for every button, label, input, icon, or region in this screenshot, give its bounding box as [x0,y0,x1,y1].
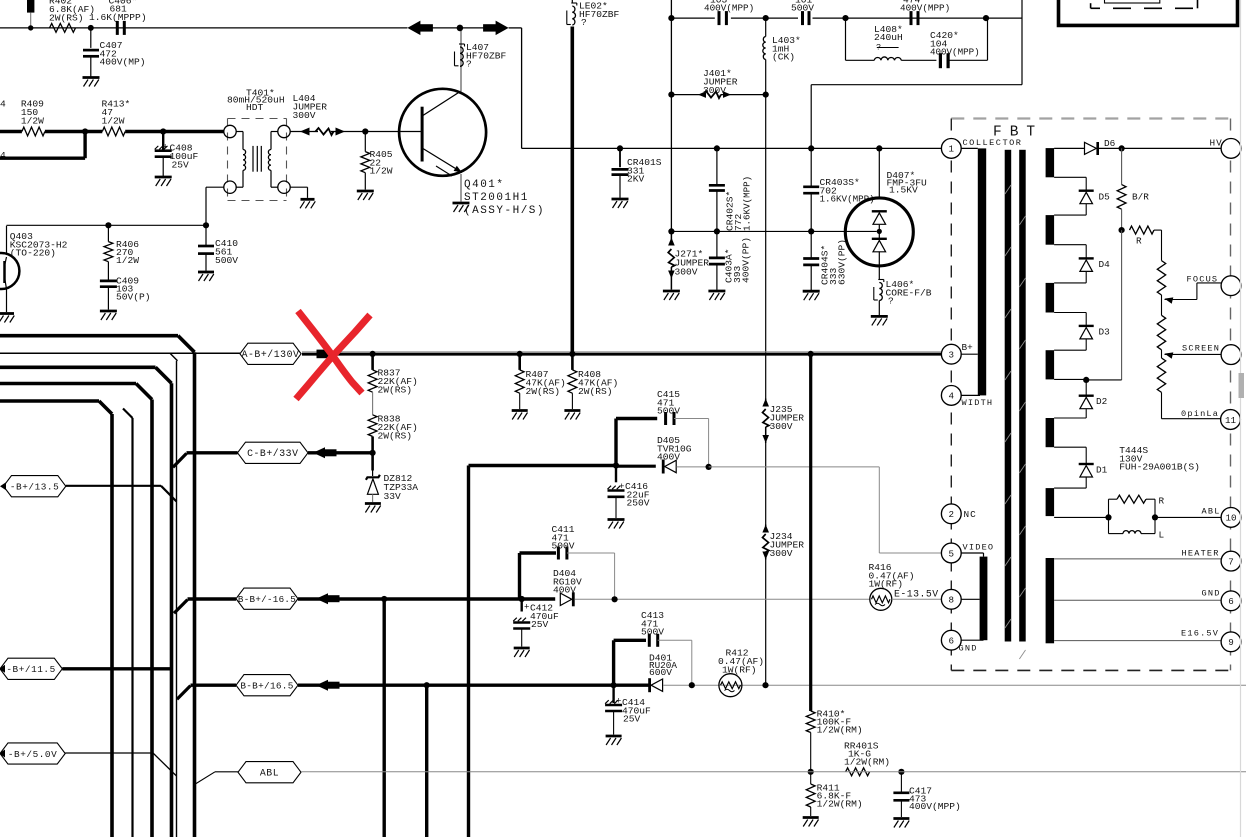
ground below C408 [155,176,172,179]
wire thin branch down x=176.5 [170,353,178,361]
jumper J401* JUMPER 300V [671,94,700,96]
transformer T401* 80mH/520uH HDT [224,87,290,200]
svg-text:400V(MP): 400V(MP) [100,57,146,68]
svg-text:400V(MPP): 400V(MPP) [930,47,980,58]
transistor Q401* ST2001H1 (ASSY-H/S) [399,89,486,176]
wire -B+/130V row to FBT pin3 [302,351,941,353]
HV output circle [1221,139,1241,159]
fusible resistor R416 0.47(AF) 1W(RF) [870,588,892,610]
wire bus D y=383.5 corner to vertical x=152 [0,382,136,386]
svg-text:2W(RS): 2W(RS) [526,386,561,397]
arrow left on top net [407,21,420,35]
wire bus C y=367.3 corner to vertical x=171.5 [0,365,156,369]
svg-text:3: 3 [949,350,955,361]
FOCUS output circle [1221,276,1241,296]
wire Q403 collector to net y=225.3 [6,226,8,254]
svg-text:FOCUS: FOCUS [1187,275,1219,285]
red X annotation over -B+/130V [298,311,362,393]
FBT secondary winding segments [1046,148,1055,177]
node junction top net x=986 [983,15,989,21]
wire C415 right to D405 node [674,418,709,420]
svg-text:E-13.5V: E-13.5V [894,589,939,600]
wire bus A y=335.7 from left edge with corner to vertical x=194.5 [0,334,178,338]
diode pack D407* FMP-3FU 1.5KV [876,145,882,151]
ground below Q403 [0,312,14,315]
pin 6 GND right [1221,591,1241,611]
net label hexagon ABL [238,762,301,783]
FOCUS wiper [1165,297,1174,303]
svg-text:300V: 300V [675,267,698,278]
wire B+/33V row [173,453,187,467]
connector box on B+/130V [317,350,332,359]
resistor R407 47K(AF) 2W(RS) [517,351,523,357]
wire BR terminal to ground [290,186,307,188]
wire Q401 emitter down to ground [460,174,462,202]
inductor L403* 1mH (CK) [763,37,766,60]
svg-text:1: 1 [949,144,955,155]
svg-text:-B+/13.5: -B+/13.5 [10,482,59,493]
svg-text:2KV: 2KV [627,174,645,185]
svg-text:HF70ZBF: HF70ZBF [466,50,507,61]
wire B+ row1 y=131.5 thick from left edge [0,130,22,133]
svg-text:630V(PP): 630V(PP) [837,239,848,285]
wire -B+/13.5 row [66,485,161,487]
capacitor C406* 681 1.6K(MPPP) [116,21,119,35]
diode D1 [1079,463,1094,465]
ground below J271 [663,290,680,293]
pin 2 NC [941,504,961,524]
svg-text:-B+/5.0V: -B+/5.0V [8,749,57,760]
node junctions R/L [1105,514,1111,520]
ground below C407 [83,76,100,79]
node junction on top net above Q401 [457,25,464,32]
svg-text:4: 4 [949,391,955,402]
svg-text:D6: D6 [1104,138,1116,149]
svg-text:400V(MPP): 400V(MPP) [909,801,961,812]
wire C411 right down to D404 row [567,552,615,554]
SCREEN output circle [1221,345,1241,365]
jumper L404 JUMPER 300V [290,131,313,133]
wire net y=231.4 J271 to D407 [671,230,876,232]
node junction C410 top [203,222,209,228]
svg-text:+: + [524,603,529,613]
svg-text:VIDEO: VIDEO [963,543,995,553]
pin 1 COLLECTOR [941,139,961,159]
svg-text:R: R [1136,236,1142,247]
wire corner path from top right down to collector line x=811 [1021,0,1023,85]
node junction top net x=765.7 [763,15,769,21]
svg-text:500V: 500V [791,3,814,14]
svg-text:HDT: HDT [246,102,264,113]
svg-text:1/2W(RM): 1/2W(RM) [844,757,890,768]
diode D6 [1054,147,1084,149]
wire corner down to collector line [521,28,523,148]
net label hexagon A-B+/130V [240,343,301,364]
net label hexagon -B+/5.0V [0,743,65,764]
wire thick net y=465.5 corner x=468.5 down [469,464,617,467]
inductor-capacitor branch L408* 240uH + C420* 104 400V(MPP) [845,18,847,60]
wire C413 thick L [612,640,615,685]
capacitor C417 473 400V(MPP) [900,772,902,793]
capacitor C414 470uF 25V polarized [612,685,614,703]
svg-text:250V: 250V [627,498,650,509]
capacitor C410 561 500V [205,225,207,245]
capacitor CR404S* 333 630V(PP) [808,228,814,234]
pin 9 E16.5V [1221,632,1241,652]
jumper J271* JUMPER 300V [670,231,672,243]
capacitor CR402S* 772 1.6KV(MPP) [714,145,720,151]
inductor L407 HF70ZBF ferrite bead [460,47,463,66]
svg-text:D1: D1 [1096,465,1108,476]
wire GND right [1054,599,1221,601]
wire L403 vertical down to J401 [765,18,767,36]
R L parallel network [1109,495,1165,540]
wire to ABL pin 10 [1155,516,1221,518]
wire D401 row thin [663,684,1246,686]
wire thick vertical from LE02 down to B+/130V row [570,27,574,354]
svg-text:B+: B+ [962,342,974,353]
svg-text:C-B+/33V: C-B+/33V [247,448,298,459]
arrow on B+/33V row [313,447,325,458]
node junction vertical x=426.7 start [424,682,430,688]
capacitor 474 400V(MPP) top net [910,11,913,25]
wire Q403 emitter to ground [6,289,8,312]
capacitor CR401S 331 2KV [617,145,623,151]
scrollbar track right edge [1240,0,1242,837]
ground below C409 [100,310,117,313]
svg-text:0pinLa: 0pinLa [1181,409,1219,419]
svg-text:300V: 300V [703,85,726,96]
fusible resistor R412 0.47(AF) 1W(RF) [719,674,742,697]
svg-text:4: 4 [0,99,6,110]
svg-text:1/2W(RM): 1/2W(RM) [817,799,863,810]
resistor R408 47K(AF) 2W(RS) [569,351,575,357]
resistor R405 22 1/2W [364,132,366,152]
svg-text:5: 5 [949,548,955,559]
off-page stub (black bar) top-left [27,0,34,13]
svg-text:R: R [1159,496,1165,507]
svg-text:4: 4 [0,150,6,161]
wire seg4-D2 with node [1054,378,1086,380]
wire ABL row thin grey to right edge [301,771,1246,773]
node junction vertical x=384 start [381,596,387,602]
inductor LE02* HF70ZBF ferrite bead on thick vertical [571,0,573,3]
scrollbar thumb [1239,373,1245,398]
pin 8 [941,589,961,609]
node junction R410/R411/RR401S [808,769,814,775]
wire seg6 to ABL R/L network [1054,516,1108,518]
svg-text:400V: 400V [553,585,576,596]
node junction J401 left [668,92,674,98]
pin 11 [1221,410,1241,430]
svg-text:400V: 400V [657,452,680,463]
node junction R409/R413 [82,128,88,134]
svg-text:Q401*: Q401* [464,179,505,191]
svg-text:25V: 25V [531,619,549,630]
svg-text:2W(RS): 2W(RS) [49,12,84,23]
svg-text:ABL: ABL [1202,507,1221,517]
wire bus vertical x=132.5 [123,409,133,419]
svg-text:?: ? [888,296,894,307]
svg-text:1.5KV: 1.5KV [889,185,918,196]
svg-text:ABL: ABL [260,768,279,779]
node junction at x=31 on top net [28,25,33,30]
svg-text:7: 7 [1228,556,1234,567]
svg-text:A-B+/130V: A-B+/130V [242,349,300,360]
node junction B/R bottom R [1121,209,1123,230]
pin 7 HEATER [1221,551,1241,571]
svg-text:NC: NC [964,509,977,520]
node junction D6/HV [1119,145,1125,151]
node center of D407 [877,229,882,234]
wire -B+/5.0V row thin [65,752,153,754]
resistor RR401S 1K-G 1/2W(RM) on ABL row [846,768,870,776]
svg-text:?: ? [466,59,472,70]
capacitor C416 22uF 250V polarized [615,466,617,483]
capacitor C408 100uF 25V polarized [162,132,164,150]
wire D404 row thin to R416 [575,598,870,600]
wire R837-R838 [372,392,374,415]
net label hexagon C-B+/33V [238,442,309,463]
pin 4 WIDTH [941,386,961,406]
svg-text:B-B+/16.5: B-B+/16.5 [240,681,293,692]
wire B/R vertical down to seg4 node [1121,230,1123,380]
wire seg2-D4 [1054,244,1086,246]
svg-text:-B+/11.5: -B+/11.5 [6,664,55,675]
svg-text:600V: 600V [649,667,672,678]
wire seg5-D1 [1054,446,1086,448]
resistor R402 6.8K(AF) 2W(RS) [50,24,76,33]
svg-text:COLLECTOR: COLLECTOR [963,138,1023,148]
pin 5 VIDEO [941,543,961,563]
wire pin5 to video bar [961,552,983,554]
net label hexagon -B+/13.5 [4,476,66,497]
svg-text:B/R: B/R [1132,192,1149,203]
svg-text:240uH: 240uH [874,32,903,43]
focus/screen potentiometer chain [1161,230,1163,261]
svg-text:(ASSY-H/S): (ASSY-H/S) [464,205,545,217]
svg-text:2W(RS): 2W(RS) [378,431,413,442]
svg-text:6: 6 [949,636,955,647]
wire thick vertical B+ to R410 [809,354,812,711]
FBT dashed box [951,119,1230,671]
svg-text:2W(RS): 2W(RS) [378,385,413,396]
wire seg1-D5 [1054,176,1086,178]
wire E16.5V [1054,640,1221,642]
wire VIDEO net right and down to pin5 [709,466,880,468]
svg-text:11: 11 [1225,415,1237,426]
diode D5 [1079,189,1094,191]
svg-text:D2: D2 [1096,396,1107,407]
svg-text:+: + [619,482,624,492]
svg-text:25V: 25V [623,714,641,725]
node junction top net x=845.5 [842,15,848,21]
capacitor CR403S* 702 1.6KV(MPP) [808,145,814,151]
diode D4 [1079,257,1094,259]
wire ABL lead-in [195,772,216,785]
node junction top net x=671 [668,15,674,21]
wire B+/-16.5 row thick [174,600,188,614]
svg-text:500V: 500V [215,255,238,266]
pin 3 B+ [941,344,961,364]
node junction at C408 [160,128,166,134]
wire vertical x=671.4 from top edge down to J271 [670,0,672,231]
svg-text:1.6K(MPPP): 1.6K(MPPP) [89,12,147,23]
resistor R413* 47 1/2W [102,127,125,136]
svg-text:FUH-29A001B(S): FUH-29A001B(S) [1119,462,1200,473]
node junction J234 bottom [762,682,768,688]
node junction at x=90.8 [88,25,94,31]
wire net y=225.3 [7,224,207,226]
resistor R to focus chain [1130,226,1155,234]
capacitor C413 471 500V [648,634,651,647]
capacitor C415 471 500V [664,412,667,425]
wire Q401 collector up to arrow node [460,29,462,92]
wire row2 y=158.2 thick from left edge with corner up at x=85 [0,156,85,159]
resistor R410* 100K-F 1/2W(RM) [806,711,815,733]
wire top net y=28 from left edge to corner at x=521.6 [0,27,407,29]
svg-text:+: + [616,697,621,707]
FBT primary winding bar [978,148,986,395]
svg-text:HV: HV [1210,138,1223,149]
wire x=765.7 vertical down through rows to D401 row [765,95,767,399]
svg-text:33V: 33V [384,491,402,502]
node junction main at C415/D405/C416 [613,462,619,468]
capacitor C412 470uF 25V polarized [521,599,523,612]
jumper J234 JUMPER 300V [762,525,769,533]
svg-text:1/2W(RM): 1/2W(RM) [817,725,863,736]
svg-text:D4: D4 [1099,259,1111,270]
FBT core bars [1005,150,1012,642]
ground below Q401 emitter [453,202,470,205]
jumper J235 JUMPER 300V [762,399,769,407]
svg-text:(CK): (CK) [772,52,795,63]
svg-text:L: L [1159,530,1165,541]
ground below L406 [871,315,888,318]
wire seg3-D3 [1054,312,1086,314]
wire C413 right down to D401 row [658,639,692,641]
svg-text:10: 10 [1225,513,1236,524]
svg-text:9: 9 [1228,637,1234,648]
net label hexagon B-B+/16.5 [236,675,298,696]
svg-text:50V(P): 50V(P) [116,292,151,303]
wire C411 thick L [518,553,521,599]
svg-text:500V: 500V [657,406,680,417]
svg-text:1.6KV(MPP): 1.6KV(MPP) [742,176,753,231]
node junction thick vertical to R410 [808,351,814,357]
diode D405 TVR10G 400V [616,465,656,468]
node junction J271 top [668,228,674,234]
node junction C417 top [898,769,904,775]
capacitor C409 103 50V(P) [100,280,117,283]
svg-text:(TO-220): (TO-220) [10,248,56,259]
svg-text:500V: 500V [641,627,664,638]
svg-text:300V: 300V [293,110,316,121]
net label hexagon B-B+/-16.5 [236,588,298,609]
node junction D405 output [706,464,712,470]
resistor R837 22K(AF) 2W(RS) [370,351,376,357]
ground below R405 [357,190,374,193]
pin 6 GND [941,630,961,650]
wire thick up to C415 [614,419,617,466]
svg-text:300V: 300V [770,421,793,432]
capacitor C411 471 500V [557,547,560,560]
wire -B+/130V thin line from left edge [0,352,240,354]
wire HEATER [1054,558,1221,560]
svg-text:6: 6 [1228,596,1234,607]
diode D2 [1079,395,1094,397]
svg-text:GND: GND [959,643,978,653]
node junction D404/C411 node [612,596,618,602]
svg-text:500V: 500V [552,541,575,552]
arrow on B+/16.5 row [316,680,328,691]
top-right block partial box [1059,0,1238,25]
svg-text:8: 8 [949,595,955,606]
svg-text:1/2W: 1/2W [21,116,44,127]
pin 10 ABL [1221,508,1241,528]
zener diode DZ812 TZP33A 33V [371,453,374,471]
svg-text:2: 2 [949,509,955,520]
svg-text:HEATER: HEATER [1182,549,1220,559]
diode D3 [1079,325,1094,327]
ground at T401 secondary [301,198,315,201]
diode D401 RU20A 600V [648,678,651,692]
svg-text:SCREEN: SCREEN [1182,344,1220,354]
svg-text:E16.5V: E16.5V [1181,629,1219,639]
node junction DZ812 top [370,450,376,456]
arrow right on top net [496,21,509,35]
capacitor C407 472 400V(MP) [90,28,92,48]
wire to pin 11 [1162,418,1222,420]
svg-text:2W(RS): 2W(RS) [578,386,613,397]
svg-text:WIDTH: WIDTH [962,398,994,408]
diode D404 RG10V 400V [560,593,572,605]
wire -B+/11.5 row [62,667,171,670]
capacitor C403A* 393 400V(PP) [714,228,720,234]
svg-text:400V(MPP): 400V(MPP) [704,3,754,14]
svg-text:GND: GND [1202,589,1221,599]
wire pin6 to video bar [961,639,983,641]
wire pin1 to primary bar [961,147,978,149]
resistor R838 22K(AF) 2W(RS) [368,415,377,437]
arrow on B+/-16.5 row [316,593,328,604]
net label hexagon -B+/11.5 [0,658,62,679]
capacitor 101 500V [801,11,804,25]
svg-text:D5: D5 [1099,192,1111,203]
svg-text:1W(RF): 1W(RF) [722,665,757,676]
svg-text:+: + [163,143,168,153]
svg-text:300V: 300V [770,548,793,559]
node junction J401 right [763,92,769,98]
transistor Q403 KSC2073-H2 (TO-220) [0,253,19,289]
resistor R411 6.8K-F 1/2W(RM) [810,772,812,784]
capacitor 103 400V(MPP) [718,11,721,25]
node junction base of Q401 [362,128,368,134]
node junction C413/C414 [611,682,617,688]
svg-text:ST2001H1: ST2001H1 [464,192,529,204]
node junction C412 top [519,596,525,602]
wire top net y=18 from x=671 to corner x=1022 [671,17,714,19]
svg-text:?: ? [876,43,881,53]
svg-text:1/2W: 1/2W [116,255,139,266]
node junction C413 wire [689,682,695,688]
wire pin4 to bar bottom [961,394,980,396]
svg-text:400V(PP): 400V(PP) [741,237,752,283]
inductor L406* CORE-F/B [879,283,882,301]
wire pin3 to bar [961,353,978,355]
FBT video winding bar [980,557,988,641]
resistor R409 150 1/2W [22,127,45,136]
